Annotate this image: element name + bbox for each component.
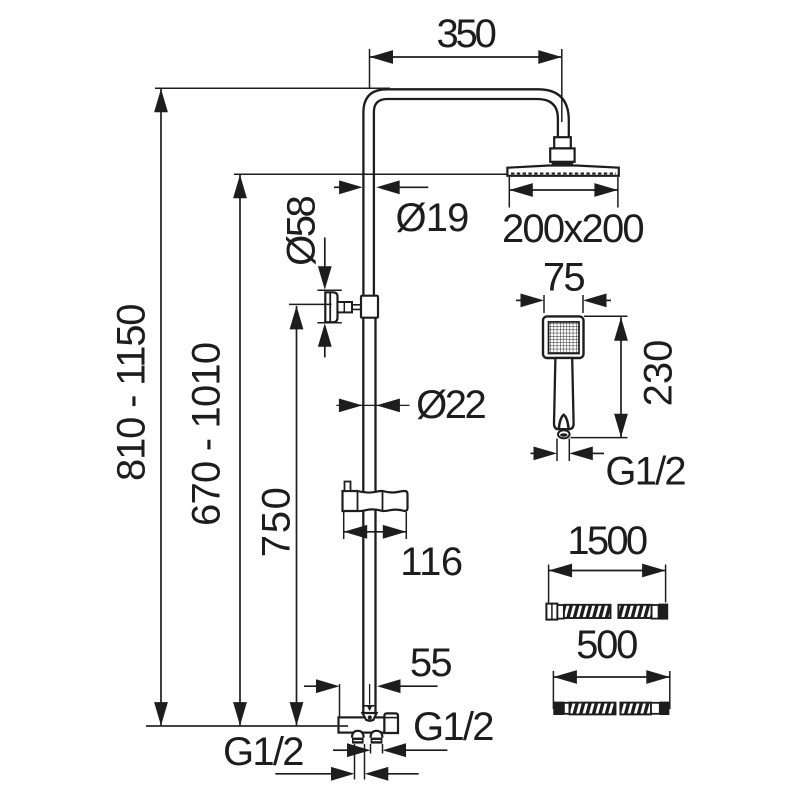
hose 500 drawing [553, 702, 669, 715]
riser lower column [363, 300, 375, 706]
hand shower cone [559, 415, 569, 429]
dimension 670-1010 [233, 174, 507, 725]
dimension 500 [553, 670, 669, 709]
dimension G1/2 hand shower [531, 439, 605, 462]
svg-text:G1/2: G1/2 [223, 730, 303, 774]
dimension 75 [516, 294, 611, 314]
funnel tip into body [362, 713, 376, 721]
svg-text:Ø19: Ø19 [396, 196, 469, 240]
dimension Ø19 [334, 180, 428, 194]
hand shower spray face [549, 322, 580, 354]
overhead shower connector nut [550, 148, 574, 161]
dimension 810-1150 [154, 88, 390, 725]
valve bottom nut left [352, 731, 364, 738]
hand shower handle [554, 358, 574, 429]
svg-text:75: 75 [543, 256, 584, 300]
holder tab [345, 482, 351, 492]
overhead shower head 200x200 [507, 166, 618, 176]
wall bracket flange [325, 292, 337, 322]
svg-text:810 - 1150: 810 - 1150 [110, 305, 154, 481]
baseline at mixer [146, 725, 348, 727]
svg-text:670 - 1010: 670 - 1010 [185, 343, 229, 526]
slider block on column [361, 296, 378, 318]
svg-text:116: 116 [400, 540, 463, 584]
svg-text:500: 500 [576, 623, 637, 667]
hose 1500 drawing [546, 604, 668, 620]
dimension Ø58 [317, 238, 341, 358]
svg-text:750: 750 [255, 485, 299, 557]
hand shower head [543, 316, 584, 358]
dimension 750 [289, 304, 332, 725]
mixer inlet pipe extension [363, 706, 375, 714]
bracket stem [338, 302, 353, 312]
svg-text:G1/2: G1/2 [605, 450, 685, 494]
valve right outlet [384, 713, 398, 733]
svg-text:Ø58: Ø58 [280, 196, 324, 265]
valve bottom nut right [371, 731, 383, 738]
dimension G1/2 valve bottom left [275, 744, 418, 781]
dimension 1500 [549, 564, 666, 603]
dimension 200x200 [509, 177, 618, 208]
svg-text:55: 55 [410, 641, 451, 685]
riser upper tube with arc [363, 89, 568, 298]
dimension 230 [571, 316, 628, 437]
svg-text:350: 350 [437, 12, 496, 56]
dimension 55 [304, 679, 438, 716]
svg-text:230: 230 [637, 340, 681, 407]
svg-text:1500: 1500 [567, 519, 646, 563]
hand shower outlet [558, 430, 570, 438]
mixer valve body [339, 717, 385, 732]
dimension 116 [344, 512, 407, 539]
overhead shower connector collar [554, 137, 571, 148]
dimension G1/2 valve right [333, 743, 447, 757]
dimension 350 [370, 49, 562, 122]
dimension Ø22 [336, 399, 409, 413]
svg-text:G1/2: G1/2 [413, 705, 493, 749]
svg-text:200x200: 200x200 [502, 207, 643, 251]
slider holder on column [343, 491, 408, 511]
svg-text:Ø22: Ø22 [416, 383, 485, 427]
